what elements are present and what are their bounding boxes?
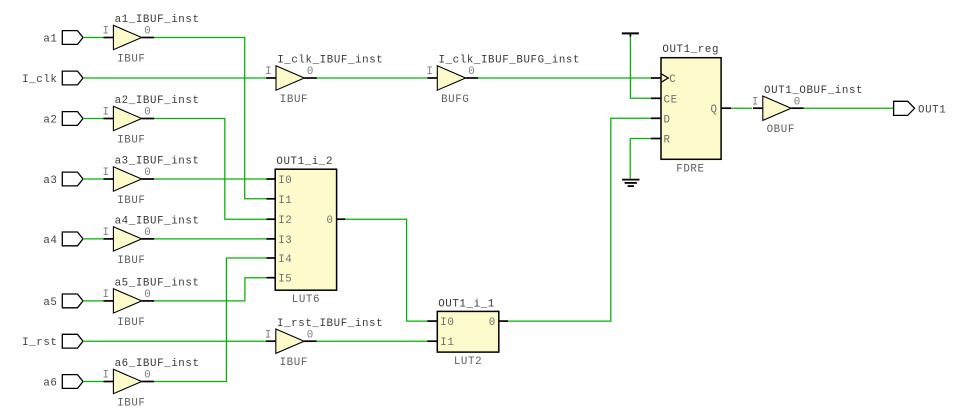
buffer IBUF a6_IBUF_inst (103, 358, 200, 409)
wire BUFG to FDRE C (478, 77, 651, 79)
svg-text:a6_IBUF_inst: a6_IBUF_inst (115, 358, 200, 370)
svg-text:0: 0 (327, 215, 334, 227)
buffer IBUF a3_IBUF_inst (103, 156, 200, 207)
wire ground to FDRE R (630, 138, 651, 140)
svg-text:I: I (103, 26, 110, 38)
svg-text:CE: CE (664, 94, 678, 106)
svg-text:OUT1: OUT1 (918, 104, 946, 116)
svg-text:0: 0 (307, 329, 314, 341)
svg-text:I: I (103, 107, 110, 119)
svg-text:BUFG: BUFG (441, 94, 469, 106)
svg-text:I: I (752, 96, 759, 108)
svg-text:0: 0 (144, 107, 151, 119)
flip-flop FDRE OUT1_reg (651, 44, 731, 175)
ground (622, 180, 640, 187)
svg-text:IBUF: IBUF (280, 94, 308, 106)
input port I_clk (22, 71, 83, 86)
buffer IBUF a4_IBUF_inst (103, 216, 200, 267)
wire a6 to IBUF (83, 381, 104, 383)
wire OBUF to OUT1 port (804, 107, 894, 109)
output port OUT1 (894, 101, 947, 116)
svg-text:I2: I2 (278, 215, 292, 227)
svg-text:IBUF: IBUF (117, 255, 145, 267)
svg-text:a3: a3 (43, 175, 57, 187)
svg-text:R: R (664, 135, 671, 147)
buffer BUFG I_clk_IBUF_BUFG_inst (426, 55, 580, 106)
wire LUT2 O to FDRE D (508, 118, 651, 321)
svg-text:Q: Q (711, 104, 718, 116)
svg-text:I_clk_IBUF_BUFG_inst: I_clk_IBUF_BUFG_inst (439, 55, 581, 67)
svg-text:I5: I5 (278, 274, 292, 286)
svg-text:OBUF: OBUF (767, 124, 795, 136)
wire VCC to FDRE CE (630, 37, 651, 99)
buffer OBUF OUT1_OBUF_inst (752, 85, 863, 136)
svg-text:I1: I1 (278, 195, 292, 207)
input port a2 (43, 112, 83, 127)
svg-text:OUT1_reg: OUT1_reg (662, 44, 719, 56)
wire a3 to IBUF (83, 178, 104, 180)
power VCC (622, 33, 639, 36)
svg-text:OUT1_i_1: OUT1_i_1 (438, 298, 495, 310)
svg-text:0: 0 (144, 227, 151, 239)
buffer IBUF a1_IBUF_inst (103, 14, 200, 65)
svg-text:a6: a6 (43, 378, 57, 390)
wire a2 to IBUF (83, 118, 104, 120)
svg-text:I: I (265, 329, 272, 341)
wire a5 to IBUF (83, 300, 104, 302)
input port a1 (43, 31, 83, 46)
svg-text:0: 0 (144, 26, 151, 38)
svg-text:a2_IBUF_inst: a2_IBUF_inst (115, 95, 200, 107)
svg-text:FDRE: FDRE (676, 163, 704, 175)
svg-text:I: I (265, 66, 272, 78)
wire I_clk to IBUF (83, 77, 266, 79)
svg-text:IBUF: IBUF (117, 54, 145, 66)
svg-text:IBUF: IBUF (280, 357, 308, 369)
svg-text:I4: I4 (278, 254, 292, 266)
wire a4 to IBUF (83, 238, 104, 240)
svg-text:IBUF: IBUF (117, 317, 145, 329)
svg-text:I_rst: I_rst (22, 337, 57, 349)
buffer IBUF I_rst_IBUF_inst (265, 318, 383, 369)
svg-text:0: 0 (307, 66, 314, 78)
svg-text:0: 0 (489, 317, 496, 329)
svg-text:D: D (664, 114, 671, 126)
wire I_rst_IBUF to LUT2 I1 (317, 340, 428, 342)
LUT6 OUT1_i_2 (267, 156, 346, 306)
svg-text:I: I (426, 66, 433, 78)
svg-text:I_rst_IBUF_inst: I_rst_IBUF_inst (277, 318, 383, 330)
svg-text:LUT6: LUT6 (292, 294, 320, 306)
wire FDRE Q to OBUF (731, 107, 752, 109)
input port a4 (43, 232, 83, 247)
input port a5 (43, 294, 83, 309)
svg-text:I0: I0 (278, 175, 292, 187)
wire a1 to IBUF (83, 37, 104, 39)
svg-text:LUT2: LUT2 (454, 356, 482, 368)
svg-text:0: 0 (794, 96, 801, 108)
svg-text:I: I (103, 227, 110, 239)
svg-text:OUT1_i_2: OUT1_i_2 (276, 156, 333, 168)
wire LUT6 O to LUT2 I0 (345, 219, 427, 321)
svg-text:IBUF: IBUF (117, 398, 145, 410)
svg-text:a2: a2 (43, 115, 57, 127)
svg-text:0: 0 (144, 289, 151, 301)
svg-text:I_clk: I_clk (22, 74, 57, 86)
svg-text:OUT1_OBUF_inst: OUT1_OBUF_inst (764, 85, 863, 97)
svg-text:a4_IBUF_inst: a4_IBUF_inst (115, 216, 200, 228)
svg-text:I: I (103, 370, 110, 382)
buffer IBUF a2_IBUF_inst (103, 95, 200, 146)
wire a4_IBUF to LUT6 I3 (154, 238, 266, 240)
buffer IBUF I_clk_IBUF_inst (265, 55, 383, 106)
buffer IBUF a5_IBUF_inst (103, 278, 200, 329)
svg-text:a4: a4 (43, 235, 57, 247)
svg-text:a3_IBUF_inst: a3_IBUF_inst (115, 156, 200, 168)
input port a3 (43, 172, 83, 187)
wire a1_IBUF to LUT6 I1 (154, 38, 266, 199)
svg-text:0: 0 (144, 167, 151, 179)
wire a5_IBUF to LUT6 I5 (154, 278, 266, 301)
LUT2 OUT1_i_1 (427, 298, 508, 368)
input port I_rst (22, 334, 83, 349)
svg-text:a5_IBUF_inst: a5_IBUF_inst (115, 278, 200, 290)
svg-text:I_clk_IBUF_inst: I_clk_IBUF_inst (277, 55, 383, 67)
wire I_rst to IBUF (83, 340, 266, 342)
wire a3_IBUF to LUT6 I0 (154, 178, 266, 180)
svg-text:a1_IBUF_inst: a1_IBUF_inst (115, 14, 200, 26)
svg-text:a5: a5 (43, 297, 57, 309)
svg-text:I3: I3 (278, 235, 292, 247)
wire a6_IBUF to LUT6 I4 (154, 258, 266, 382)
svg-text:IBUF: IBUF (117, 195, 145, 207)
svg-text:I1: I1 (440, 337, 454, 349)
svg-text:a1: a1 (43, 34, 57, 46)
svg-text:I: I (103, 167, 110, 179)
svg-text:0: 0 (144, 370, 151, 382)
svg-text:0: 0 (468, 66, 475, 78)
svg-text:C: C (669, 74, 676, 86)
wire ground to FDRE R riser (629, 139, 631, 179)
input port a6 (43, 375, 83, 390)
svg-text:I: I (103, 289, 110, 301)
wire I_clk_IBUF to BUFG (317, 77, 427, 79)
svg-text:IBUF: IBUF (117, 135, 145, 147)
wire a2_IBUF to LUT6 I2 (154, 119, 266, 220)
svg-text:I0: I0 (440, 317, 454, 329)
